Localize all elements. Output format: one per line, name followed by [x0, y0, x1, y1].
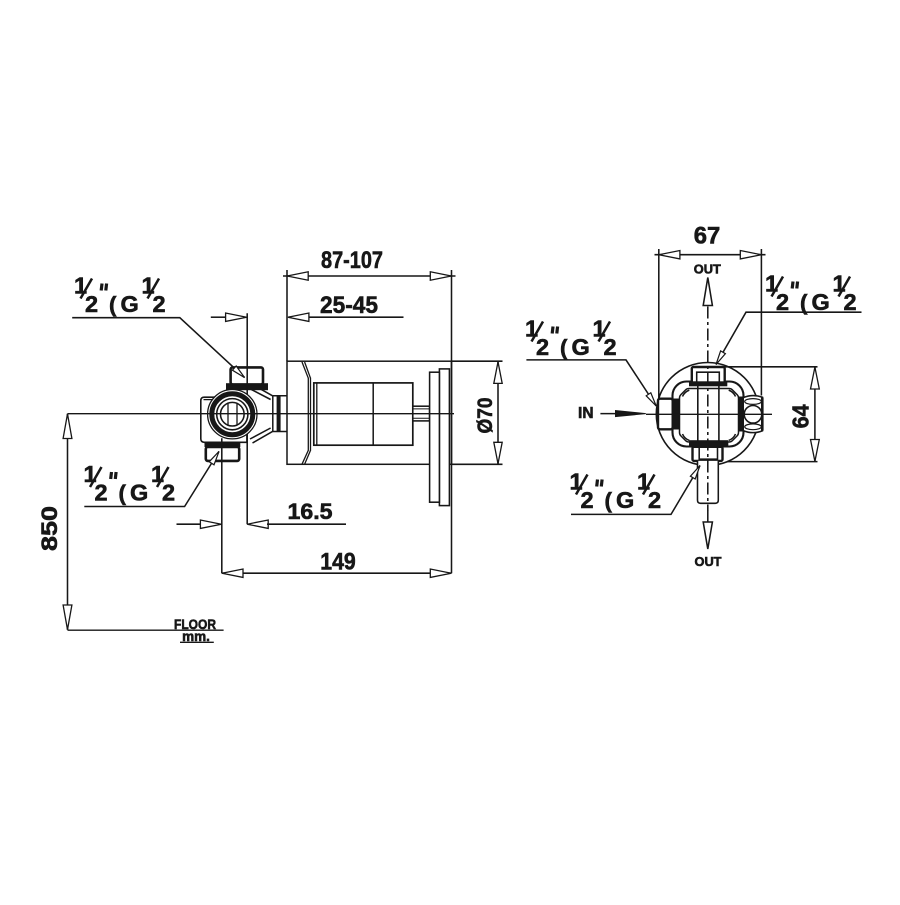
64 ext bottom — [727, 461, 818, 463]
svg-text:25-45: 25-45 — [320, 292, 378, 319]
top washer bar — [226, 383, 268, 390]
valve ring inner circle 1 — [217, 399, 248, 430]
svg-text:850: 850 — [37, 506, 62, 551]
valve body block — [201, 397, 247, 442]
dim 87-107 right arrow — [430, 272, 451, 280]
flange plate rear disc — [439, 369, 449, 506]
IN arrow shaft — [600, 413, 619, 415]
floor line — [68, 629, 224, 631]
67 ext left — [658, 249, 660, 398]
valve ring thick band — [212, 394, 253, 435]
dim 16.5 right tail — [267, 523, 346, 525]
svg-text:64: 64 — [788, 404, 814, 428]
dim O70 down arrow — [494, 442, 502, 464]
big circle O70 flange — [656, 363, 759, 466]
neck groove band — [277, 396, 281, 431]
label L1 leader arrowhead — [232, 366, 244, 378]
bottom flange bar — [205, 442, 241, 447]
dim 64 down arrow — [811, 440, 820, 462]
dim 67 right arrow — [740, 251, 761, 259]
IN arrowhead — [616, 411, 646, 417]
ext line 87-107 left (box edge extended) — [286, 270, 288, 361]
neck pipe horizontals — [273, 396, 287, 432]
drive flats chords — [228, 403, 237, 425]
svg-text:149: 149 — [320, 548, 356, 575]
label R3 leader arrowhead — [690, 466, 700, 480]
label L1 text 1/2"(G1/2 — [74, 273, 166, 318]
stem — [413, 406, 430, 421]
dim 87-107 line — [283, 275, 456, 277]
escutcheon skirt (bell) verticals — [308, 378, 310, 451]
dim 850 vertical line — [67, 414, 69, 630]
dim O70 up arrow — [494, 362, 502, 384]
svg-text:16.5: 16.5 — [288, 499, 333, 524]
bottom port inner — [699, 447, 717, 459]
O70 ext top — [452, 360, 503, 362]
left port (IN) — [658, 399, 673, 430]
heavy band right — [738, 397, 744, 432]
skirt top flare — [302, 362, 311, 378]
heavy band top — [689, 381, 727, 386]
cylinder left cap line — [316, 383, 318, 445]
bottom hex nut — [206, 447, 239, 461]
barrel right thick edge — [761, 398, 764, 431]
neck cap line — [272, 396, 274, 432]
heavy band left — [673, 399, 680, 430]
mm underline — [180, 641, 214, 643]
top port inner — [697, 372, 720, 384]
OUT top arrow — [703, 278, 712, 306]
cartridge cylinder — [314, 383, 413, 445]
label R2 (left) underline + leader — [526, 360, 656, 406]
outlet stub pipe — [698, 461, 719, 503]
inner octagon — [680, 389, 739, 443]
label L1 (top) underline — [72, 318, 244, 378]
dim 67 left arrow — [659, 251, 680, 259]
body shoulder tick — [204, 399, 214, 401]
svg-text:mm.: mm. — [182, 629, 210, 644]
barrel chamfer ellipse top — [745, 399, 762, 405]
wall box (87-107 range box) — [287, 361, 452, 464]
label R3 text 1/2"(G1/2 — [570, 469, 662, 514]
label R1 text 1/2"(G1/2 — [765, 271, 857, 316]
top hex nut — [231, 367, 263, 384]
dim 64 up arrow — [811, 367, 820, 389]
dim 16.5 left arrow (points right) — [200, 520, 221, 528]
svg-text:OUT: OUT — [694, 262, 721, 277]
label R3 (bottom) underline + leader — [571, 466, 700, 515]
cone upper diagonals — [250, 385, 273, 400]
dim 16.5 left tail — [177, 523, 202, 525]
64 ext top — [714, 366, 818, 368]
dim 25-45 right arrow (points left) — [288, 313, 309, 321]
right view horizontal centerline — [646, 413, 772, 415]
dim 25-45 left arrow (points right at line A) — [226, 313, 247, 321]
dim O70 vertical line — [497, 361, 499, 464]
svg-text:87-107: 87-107 — [321, 247, 383, 274]
barrel inner hole — [744, 406, 762, 424]
label R2 text 1/2"(G1/2 — [525, 316, 617, 361]
right view vertical dash-dot centerline — [707, 307, 709, 512]
valve ring outer circle — [208, 390, 257, 439]
dim 850 down arrow — [63, 605, 72, 630]
dim 850 up arrow — [63, 414, 72, 439]
flange plate front disc — [430, 372, 440, 502]
cone lower diagonals — [250, 428, 273, 443]
pipe vertical lines — [698, 384, 719, 441]
barrel chamfer ellipse bottom — [745, 424, 762, 430]
right port barrel — [743, 396, 762, 433]
ext line 87-107/149 right — [451, 270, 453, 573]
inner corner petal arcs — [683, 390, 736, 440]
O70 ext bottom — [452, 463, 503, 465]
label R1 (top right) underline + leader — [716, 312, 862, 364]
dim 25-45 left tail — [211, 316, 226, 318]
dim 67 line — [655, 254, 766, 256]
svg-text:IN: IN — [578, 405, 594, 422]
cylinder divider — [372, 383, 374, 445]
top port outer — [692, 367, 725, 384]
dim 149 left arrow — [222, 569, 243, 577]
label R2 leader arrowhead — [646, 393, 656, 406]
label R1 leader arrowhead — [716, 351, 725, 365]
svg-text:OUT: OUT — [694, 554, 721, 569]
label L2 text 1/2"(G1/2 — [84, 461, 176, 506]
bottom port outer — [693, 447, 723, 461]
OUT bottom arrow — [703, 522, 712, 549]
svg-text:67: 67 — [694, 222, 721, 249]
left view horizontal centerline — [68, 413, 455, 415]
dim 149 right arrow — [430, 569, 451, 577]
lobed body silhouette — [673, 382, 744, 447]
dim 87-107 left arrow — [287, 272, 308, 280]
dim 64 line — [814, 367, 816, 462]
67 ext right — [760, 249, 762, 396]
heavy band bottom — [689, 440, 728, 447]
OUT bottom shaft — [707, 511, 709, 522]
dim 149 line — [222, 572, 452, 574]
dim 16.5 right arrow (points left) — [247, 520, 268, 528]
label L2 (bottom) underline — [84, 451, 219, 506]
skirt bottom flare — [302, 450, 311, 464]
dim 25-45 right tail — [289, 316, 404, 318]
valve ring inner circle 2 — [221, 402, 245, 426]
extension line B (bottom port axis) — [221, 438, 223, 573]
label L2 leader arrowhead — [209, 451, 219, 464]
extension line A (port axis / 25-45 right) — [246, 313, 248, 524]
svg-text:Ø70: Ø70 — [474, 398, 497, 434]
